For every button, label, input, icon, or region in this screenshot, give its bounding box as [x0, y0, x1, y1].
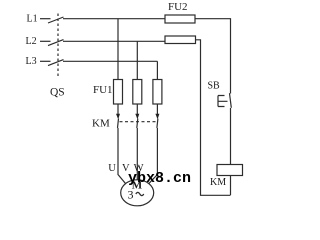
svg-text:ybx8.cn: ybx8.cn [128, 170, 191, 187]
svg-text:FU2: FU2 [168, 1, 188, 13]
svg-text:QS: QS [50, 87, 65, 99]
svg-text:SB: SB [208, 81, 221, 92]
svg-text:L3: L3 [26, 56, 37, 67]
svg-text:L2: L2 [26, 36, 37, 47]
svg-text:KM: KM [92, 118, 110, 130]
svg-text:3: 3 [128, 187, 134, 201]
svg-text:FU1: FU1 [93, 84, 113, 96]
svg-text:KM: KM [210, 177, 226, 188]
svg-text:L1: L1 [27, 14, 38, 25]
svg-text:U: U [108, 163, 116, 174]
